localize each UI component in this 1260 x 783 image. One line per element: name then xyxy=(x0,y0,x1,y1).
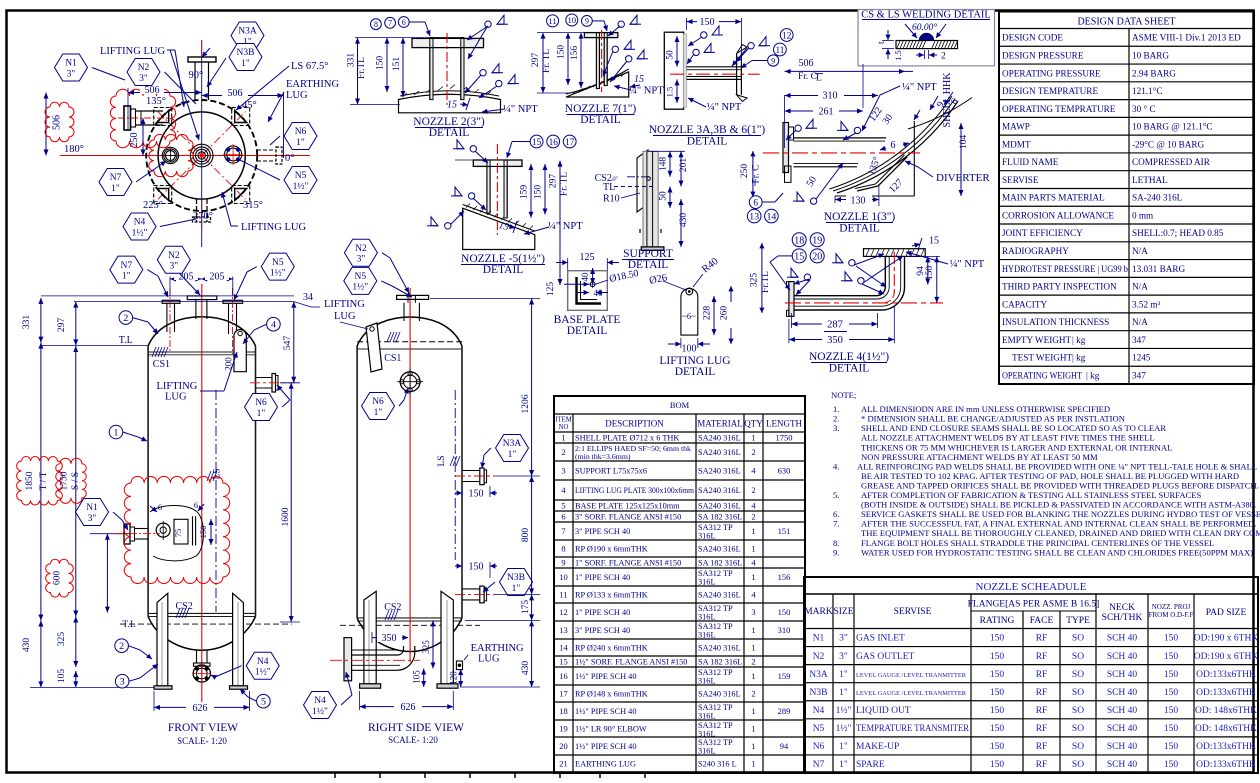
side view seam CS1 xyxy=(384,332,401,364)
svg-text:5.: 5. xyxy=(833,490,839,500)
svg-text:FROM O.D-F.F: FROM O.D-F.F xyxy=(1149,611,1194,619)
nozzle N5 (top view) xyxy=(223,144,243,165)
side view seam CS2 xyxy=(384,602,401,620)
top view dimension 250 xyxy=(129,118,146,156)
front view hexagon N1 xyxy=(76,499,129,531)
svg-text:SUPPORT L75x75x6: SUPPORT L75x75x6 xyxy=(575,467,647,476)
nozzle N1 flange assembly at 135 deg (top view) with revision cloud xyxy=(110,89,175,148)
svg-text:RF: RF xyxy=(1036,652,1048,662)
svg-text:21: 21 xyxy=(559,759,568,769)
svg-text:6: 6 xyxy=(194,500,198,510)
front view dim 600 clouded xyxy=(46,534,130,613)
svg-text:TYPE: TYPE xyxy=(1066,616,1090,626)
nozzle 3A 3B 6 detail dim 150 xyxy=(687,16,742,64)
svg-text:1½": 1½" xyxy=(255,667,271,678)
front view nozzle N1 assembly clouded xyxy=(115,476,230,583)
front view balloons xyxy=(109,425,147,441)
nozzle 5 detail 15 dim and NPT label xyxy=(497,220,583,235)
svg-text:-29°C @ 10 BARG: -29°C @ 10 BARG xyxy=(1132,139,1204,149)
svg-text:3": 3" xyxy=(88,514,97,524)
svg-text:EARTHING LUG: EARTHING LUG xyxy=(575,760,636,769)
svg-text:9: 9 xyxy=(561,558,565,568)
svg-text:OPERATING TEMPRATURE: OPERATING TEMPRATURE xyxy=(1002,104,1116,114)
svg-text:2: 2 xyxy=(751,512,755,522)
svg-text:1206: 1206 xyxy=(521,394,531,413)
lifting lug detail labels Ø26 R40 xyxy=(648,256,720,290)
svg-text:T.L: T.L xyxy=(122,620,135,630)
front view lifting lug xyxy=(224,330,247,372)
side view nozzle N3A xyxy=(455,468,495,485)
nozzle 7 detail drawing xyxy=(566,30,629,97)
top view label LS 67.5 xyxy=(236,61,328,110)
svg-text:15: 15 xyxy=(532,138,542,148)
svg-text:PAD SIZE: PAD SIZE xyxy=(1206,608,1247,618)
svg-text:NOTE;: NOTE; xyxy=(831,390,856,400)
svg-text:159: 159 xyxy=(520,185,530,200)
svg-text:15: 15 xyxy=(794,252,804,263)
front view left dims 331 297 xyxy=(22,298,148,346)
svg-text:SCH 40: SCH 40 xyxy=(1107,706,1138,716)
svg-text:NOZZLE 4(1½"): NOZZLE 4(1½") xyxy=(809,351,889,363)
svg-text:19: 19 xyxy=(812,235,822,246)
svg-text:SA240 316L: SA240 316L xyxy=(698,690,741,699)
svg-text:1": 1" xyxy=(512,584,521,594)
svg-text:SCH 40: SCH 40 xyxy=(1107,760,1138,770)
svg-text:DETAIL: DETAIL xyxy=(429,127,470,139)
svg-text:SCH 40: SCH 40 xyxy=(1107,724,1138,734)
svg-text:1: 1 xyxy=(751,724,755,734)
side view caption xyxy=(368,722,464,745)
svg-text:506: 506 xyxy=(145,85,160,96)
svg-text:150: 150 xyxy=(990,760,1005,770)
svg-text:3: 3 xyxy=(751,607,755,617)
front view hexagon flags N7 N2 N5 xyxy=(110,256,168,297)
svg-text:5: 5 xyxy=(261,697,266,708)
hexagon flag N3A 1 inch (top view) xyxy=(231,22,264,49)
svg-text:1½": 1½" xyxy=(836,705,852,716)
nozzle 7 detail 15 dim and NPT label xyxy=(614,74,664,97)
svg-text:1": 1" xyxy=(296,138,305,148)
svg-text:175: 175 xyxy=(521,600,531,615)
svg-text:SA240 316L: SA240 316L xyxy=(698,502,741,511)
svg-text:SHELL:0.7; HEAD 0.85: SHELL:0.7; HEAD 0.85 xyxy=(1132,228,1224,238)
svg-text:GREASE AND TAPPED ORIFICES SHA: GREASE AND TAPPED ORIFICES SHALL BE PROV… xyxy=(861,480,1259,490)
nozzle 2 detail 15 dim and NPT label xyxy=(447,98,538,115)
front view dim 1600 xyxy=(280,383,300,622)
nozzle 3A 3B 6 detail dims 50 and 1.5 xyxy=(665,36,680,103)
svg-text:3.52 m³: 3.52 m³ xyxy=(1132,299,1161,309)
svg-text:N3B: N3B xyxy=(810,688,828,698)
front view caption xyxy=(168,722,238,746)
svg-text:1½": 1½" xyxy=(836,723,852,734)
support detail seam labels CS2 TL R10 xyxy=(595,173,652,205)
front view dim 1750 S/S clouded xyxy=(56,346,87,617)
side view dim 626 xyxy=(360,691,454,713)
nozzle 4 detail caption xyxy=(809,351,889,375)
svg-text:SCALE- 1:20: SCALE- 1:20 xyxy=(388,735,438,745)
nozzle 1 detail caption xyxy=(824,211,896,235)
svg-text:SO: SO xyxy=(1072,688,1084,698)
svg-text:DETAIL: DETAIL xyxy=(580,114,621,126)
nozzle 1 detail labels 122 30 135 104 6 127 50 130 xyxy=(805,105,969,206)
svg-text:261: 261 xyxy=(819,107,834,118)
svg-text:159: 159 xyxy=(778,671,791,681)
svg-text:ITEM: ITEM xyxy=(555,417,572,424)
side view dim 350 xyxy=(372,632,408,644)
svg-text:EMPTY WEIGHT: EMPTY WEIGHT xyxy=(1002,335,1072,345)
svg-text:CAPACITY: CAPACITY xyxy=(1002,299,1047,309)
svg-text:105: 105 xyxy=(57,669,67,684)
nozzle 7 detail balloons 11 10 9 xyxy=(547,14,608,31)
svg-text:SO: SO xyxy=(1072,634,1084,644)
svg-text:N7: N7 xyxy=(120,261,132,271)
svg-text:150: 150 xyxy=(557,45,567,60)
svg-text:626: 626 xyxy=(401,702,416,713)
svg-text:Fr. TL: Fr. TL xyxy=(560,172,570,196)
svg-text:430: 430 xyxy=(22,638,32,653)
side view hexagon N6 xyxy=(362,388,409,420)
svg-text:1½": 1½" xyxy=(352,282,368,293)
nozzle 3A 3B 6 detail drawing xyxy=(664,32,759,109)
svg-text:SCH 40: SCH 40 xyxy=(1107,742,1138,752)
svg-text:1½": 1½" xyxy=(132,227,148,238)
svg-text:1": 1" xyxy=(122,271,131,281)
svg-text:1" PIPE SCH 40: 1" PIPE SCH 40 xyxy=(575,608,630,617)
svg-text:RF: RF xyxy=(1036,634,1048,644)
svg-text:SO: SO xyxy=(1072,724,1084,734)
svg-text:SERVISE: SERVISE xyxy=(894,607,932,617)
svg-text:150: 150 xyxy=(1164,742,1179,752)
base plate detail hole label xyxy=(596,268,640,285)
svg-text:SPARE: SPARE xyxy=(856,760,885,770)
svg-text:150: 150 xyxy=(1164,670,1179,680)
svg-text:6: 6 xyxy=(753,198,758,208)
svg-text:BASE PLATE 125x125x10mm: BASE PLATE 125x125x10mm xyxy=(575,502,680,511)
svg-text:ALL REINFORCING PAD WELDS SHAL: ALL REINFORCING PAD WELDS SHALL BE PROVI… xyxy=(857,461,1257,471)
svg-text:N6: N6 xyxy=(372,397,384,407)
svg-text:MAKE-UP: MAKE-UP xyxy=(856,742,899,752)
svg-text:6: 6 xyxy=(158,502,162,512)
svg-text:2: 2 xyxy=(751,447,755,457)
svg-text:SA-240 316L: SA-240 316L xyxy=(1132,193,1183,203)
front view dimension 205 205 xyxy=(170,271,233,296)
svg-text:2: 2 xyxy=(941,52,946,62)
svg-text:2: 2 xyxy=(561,447,565,457)
svg-text:1: 1 xyxy=(751,741,755,751)
svg-text:NECK: NECK xyxy=(1109,603,1135,613)
svg-text:2.: 2. xyxy=(833,414,839,424)
svg-text:90°: 90° xyxy=(189,70,204,81)
svg-text:506: 506 xyxy=(52,115,63,130)
svg-text:MAIN PARTS MATERIAL: MAIN PARTS MATERIAL xyxy=(1002,193,1105,203)
nozzle 3A 3B 6 detail caption xyxy=(649,124,766,148)
svg-text:11: 11 xyxy=(548,16,556,26)
top view leader 90 deg arrow xyxy=(202,48,210,57)
svg-text:SA 182 316L: SA 182 316L xyxy=(698,658,742,667)
svg-text:BOM: BOM xyxy=(670,400,690,410)
svg-text:LEVEL GAUGE /LEVEL TRANMITTER: LEVEL GAUGE /LEVEL TRANMITTER xyxy=(856,690,967,697)
svg-text:1: 1 xyxy=(751,526,755,536)
svg-text:N2: N2 xyxy=(138,63,150,73)
nozzle N6 stub at 0 deg (top view) xyxy=(257,147,282,164)
BOM table xyxy=(554,396,805,773)
svg-text:S / S: S / S xyxy=(71,472,81,490)
svg-text:CS1: CS1 xyxy=(153,359,170,370)
hexagon flag N3B 1 inch (top view) xyxy=(207,44,262,88)
svg-text:8.: 8. xyxy=(833,538,839,548)
nozzle 7 detail dims 297 150 156 xyxy=(531,33,584,93)
nozzle 3A 3B 6 detail NPT label xyxy=(688,98,742,113)
svg-text:OPERATING PRESSURE: OPERATING PRESSURE xyxy=(1002,68,1101,78)
svg-text:T.L: T.L xyxy=(119,335,133,346)
svg-text:RADIOGRAPHY: RADIOGRAPHY xyxy=(1002,246,1069,256)
svg-text:OD:190 x 6THK: OD:190 x 6THK xyxy=(1194,652,1259,662)
svg-text:315°: 315° xyxy=(243,200,263,211)
weld seam symbol with 60 degree groove xyxy=(896,22,958,49)
top view dimension 506 right xyxy=(202,87,284,99)
svg-text:1½": 1½" xyxy=(312,706,328,717)
svg-text:15: 15 xyxy=(447,100,457,111)
svg-text:N3A: N3A xyxy=(503,439,522,449)
svg-text:1" PIPE SCH 40: 1" PIPE SCH 40 xyxy=(575,573,630,582)
svg-text:TL: TL xyxy=(603,182,615,193)
side view nozzle N6 face circles xyxy=(397,369,423,395)
svg-text:1½": 1½" xyxy=(270,267,286,278)
svg-text:SCH 40: SCH 40 xyxy=(1107,688,1138,698)
svg-text:Fr. C: Fr. C xyxy=(752,164,762,183)
svg-text:DETAIL: DETAIL xyxy=(567,325,608,337)
svg-text:N4: N4 xyxy=(257,657,269,667)
svg-text:1½" SORF. FLANGE ANSI #150: 1½" SORF. FLANGE ANSI #150 xyxy=(575,658,687,667)
nozzle N7 (top view) with revision cloud xyxy=(149,134,193,176)
svg-text:N3B: N3B xyxy=(507,573,525,583)
svg-text:75: 75 xyxy=(173,529,183,538)
svg-text:FLUID NAME: FLUID NAME xyxy=(1002,157,1059,167)
svg-text:430: 430 xyxy=(679,213,689,228)
nozzle 2 detail drawing xyxy=(399,33,501,113)
svg-text:1: 1 xyxy=(751,572,755,582)
svg-text:151: 151 xyxy=(778,526,791,536)
svg-text:R10: R10 xyxy=(603,194,620,205)
svg-text:SCH 40: SCH 40 xyxy=(1107,652,1138,662)
svg-text:THICKENS OR 75 MM WHICHEVER IS: THICKENS OR 75 MM WHICHEVER IS LARGER AN… xyxy=(861,442,1172,452)
nozzle 2 detail weld symbols xyxy=(465,15,519,98)
svg-text:TEST WEIGHT: TEST WEIGHT xyxy=(1012,353,1073,363)
top view: vessel plan xyxy=(60,40,310,247)
notes text block xyxy=(831,390,1260,557)
front view LS seam line xyxy=(207,390,223,612)
svg-text:6: 6 xyxy=(891,140,896,151)
side view LS seam xyxy=(437,390,460,560)
support leg detail drawing xyxy=(637,150,664,250)
svg-text:15: 15 xyxy=(634,74,644,85)
svg-text:FLANGE BOLT HOLES SHALL STRADD: FLANGE BOLT HOLES SHALL STRADDLE THE PRI… xyxy=(861,538,1214,548)
svg-text:CS2: CS2 xyxy=(176,601,193,612)
svg-text:THE EQUIPMENT SHALL BE THOROUG: THE EQUIPMENT SHALL BE THOROUGHLY CLEANE… xyxy=(861,528,1260,538)
svg-text:S240 316 L: S240 316 L xyxy=(698,760,737,769)
support detail dims 148 201 50 430 xyxy=(648,151,689,247)
svg-text:DETAIL: DETAIL xyxy=(839,223,880,235)
svg-text:205: 205 xyxy=(210,272,225,283)
svg-text:LS 67.5°: LS 67.5° xyxy=(291,61,328,72)
svg-text:10 BARG @ 121.1°C: 10 BARG @ 121.1°C xyxy=(1132,122,1213,132)
svg-text:* DIMENSION SHALL BE CHANGE/AD: * DIMENSION SHALL BE CHANGE/ADJUSTED AS … xyxy=(861,414,1126,424)
svg-text:FRONT VIEW: FRONT VIEW xyxy=(168,722,238,734)
svg-text:N/A: N/A xyxy=(1132,282,1148,292)
svg-text:310: 310 xyxy=(823,91,838,102)
svg-text:EARTHING: EARTHING xyxy=(286,79,339,90)
svg-text:SA240 316L: SA240 316L xyxy=(698,545,741,554)
side view hexagon N3A xyxy=(480,435,528,469)
svg-text:316L: 316L xyxy=(698,577,716,586)
svg-text:MAWP: MAWP xyxy=(1002,122,1030,132)
svg-text:1850: 1850 xyxy=(25,471,35,490)
svg-text:SERVICE GASKETS SHALL BE USED: SERVICE GASKETS SHALL BE USED FOR BLANKI… xyxy=(861,509,1260,519)
svg-text:CS1: CS1 xyxy=(384,353,401,364)
svg-text:LUG: LUG xyxy=(286,90,308,101)
svg-text:350: 350 xyxy=(382,633,397,644)
svg-text:6: 6 xyxy=(561,512,565,522)
svg-text:N3A: N3A xyxy=(238,27,257,37)
svg-text:GAS INLET: GAS INLET xyxy=(856,634,905,644)
svg-text:| kg: | kg xyxy=(1086,370,1100,380)
svg-text:LIFTING LUG PLATE 300x100x6mm: LIFTING LUG PLATE 300x100x6mm xyxy=(575,486,694,495)
svg-text:3.: 3. xyxy=(833,423,839,433)
svg-text:150: 150 xyxy=(469,562,484,573)
design data sheet table xyxy=(999,12,1254,385)
svg-text:20: 20 xyxy=(559,741,568,751)
side view hexagon N3B xyxy=(483,569,533,596)
svg-text:AFTER COMPLETION OF FABRICATIO: AFTER COMPLETION OF FABRICATION & TESTIN… xyxy=(861,490,1202,500)
svg-text:331: 331 xyxy=(347,53,357,68)
svg-text:289: 289 xyxy=(778,706,791,716)
svg-text:316L: 316L xyxy=(698,676,716,685)
svg-text:40: 40 xyxy=(580,272,590,282)
svg-text:N6: N6 xyxy=(295,127,307,137)
svg-text:T / T: T / T xyxy=(39,471,49,490)
front view dim 1850 T/T clouded xyxy=(17,343,63,621)
svg-text:120: 120 xyxy=(449,671,459,685)
svg-text:125: 125 xyxy=(580,252,595,263)
svg-text:347: 347 xyxy=(1132,335,1146,345)
top view dimension 506 left xyxy=(128,84,202,130)
svg-text:DESIGN CODE: DESIGN CODE xyxy=(1002,33,1063,43)
svg-text:347: 347 xyxy=(1132,370,1146,380)
front view top nozzle N2 stub xyxy=(187,296,217,319)
svg-text:Fr. TL: Fr. TL xyxy=(542,49,552,73)
svg-text:LETHAL: LETHAL xyxy=(1132,175,1168,185)
svg-text:9.: 9. xyxy=(833,547,839,557)
lifting lug detail dims 228 260 100 xyxy=(668,286,734,355)
svg-text:297: 297 xyxy=(549,174,559,189)
nozzle 4 detail dim 325 FrTL xyxy=(750,243,771,313)
weld detail dims t 1.5 2 xyxy=(877,30,946,62)
svg-text:LUG: LUG xyxy=(165,392,187,403)
svg-text:LIFTING LUG: LIFTING LUG xyxy=(241,222,306,233)
svg-text:LS: LS xyxy=(437,455,447,466)
hexagon flag N6 1 inch (top view) xyxy=(270,123,317,150)
svg-text:150: 150 xyxy=(990,688,1005,698)
svg-text:7.: 7. xyxy=(833,519,839,529)
svg-text:34: 34 xyxy=(303,292,313,303)
svg-text:150: 150 xyxy=(778,607,791,617)
front view support legs xyxy=(157,593,243,686)
svg-text:COMPRESSED AIR: COMPRESSED AIR xyxy=(1132,157,1211,167)
svg-text:2: 2 xyxy=(751,689,755,699)
svg-text:RATING: RATING xyxy=(980,616,1015,626)
svg-text:N2: N2 xyxy=(355,244,367,254)
svg-text:8: 8 xyxy=(374,20,378,29)
svg-text:SA240 316L: SA240 316L xyxy=(698,486,741,495)
svg-text:SO: SO xyxy=(1072,742,1084,752)
svg-text:12: 12 xyxy=(782,31,792,41)
svg-text:150: 150 xyxy=(1164,760,1179,770)
svg-text:150: 150 xyxy=(990,742,1005,752)
svg-text:DETAIL: DETAIL xyxy=(829,363,870,375)
svg-text:DESIGN PRESSURE: DESIGN PRESSURE xyxy=(1002,50,1084,60)
svg-text:DESCRIPTION: DESCRIPTION xyxy=(605,419,664,429)
nozzle 7 detail caption xyxy=(565,103,637,126)
svg-text:16: 16 xyxy=(549,138,559,148)
svg-text:SA240 316L: SA240 316L xyxy=(698,591,741,600)
svg-text:430: 430 xyxy=(521,661,531,676)
svg-text:| kg: | kg xyxy=(1072,335,1086,345)
svg-text:LIFTING: LIFTING xyxy=(157,381,198,392)
svg-text:12: 12 xyxy=(559,607,568,617)
svg-text:250: 250 xyxy=(740,164,750,179)
svg-text:NOZZLE 3A,3B & 6(1"): NOZZLE 3A,3B & 6(1") xyxy=(649,124,766,136)
svg-text:THIRD PARTY INSPECTION: THIRD PARTY INSPECTION xyxy=(1002,282,1117,292)
hexagon flag N1 3 inch (top view) xyxy=(55,54,126,81)
svg-text:¼" NPT: ¼" NPT xyxy=(902,82,937,93)
svg-text:14: 14 xyxy=(559,643,568,653)
front view top reference lines and 34 dim xyxy=(41,292,320,307)
svg-text:2: 2 xyxy=(123,313,128,324)
svg-text:NOZZLE 1(3"): NOZZLE 1(3") xyxy=(824,211,896,223)
svg-text:14: 14 xyxy=(766,212,776,223)
svg-text:1.5: 1.5 xyxy=(665,87,675,98)
svg-text:JOINT EFFICIENCY: JOINT EFFICIENCY xyxy=(1002,228,1083,238)
svg-text:94: 94 xyxy=(780,741,789,751)
side view LIFTING LUG label top xyxy=(324,299,368,329)
svg-text:156: 156 xyxy=(570,46,580,61)
svg-text:250: 250 xyxy=(129,133,140,148)
svg-text:DIVERTER: DIVERTER xyxy=(936,172,990,184)
svg-text:30 ° C: 30 ° C xyxy=(1132,104,1156,114)
svg-text:1245: 1245 xyxy=(1132,353,1151,363)
svg-text:1": 1" xyxy=(839,688,848,698)
svg-text:150: 150 xyxy=(469,489,484,500)
nozzle 1 detail shell thk labels xyxy=(914,72,961,128)
side view hexagon N4 bottom xyxy=(304,672,353,719)
front view top nozzle N5 stub xyxy=(223,288,243,354)
svg-text:11: 11 xyxy=(559,590,567,600)
nozzle 1 detail weld symbols xyxy=(786,119,861,204)
svg-text:N7: N7 xyxy=(110,173,122,183)
svg-text:325: 325 xyxy=(421,640,431,654)
nozzle 1 detail dims 506 310 261 xyxy=(785,57,913,148)
svg-text:SA 182 316L: SA 182 316L xyxy=(698,559,742,568)
svg-text:SO: SO xyxy=(1072,706,1084,716)
svg-text:150: 150 xyxy=(1164,724,1179,734)
svg-text:¼" NPT: ¼" NPT xyxy=(629,86,664,97)
svg-text:150: 150 xyxy=(990,724,1005,734)
svg-text:9: 9 xyxy=(585,17,589,26)
svg-text:SO: SO xyxy=(1072,670,1084,680)
nozzle 5 detail dims 159 150 297 xyxy=(455,160,570,285)
svg-text:150: 150 xyxy=(1164,652,1179,662)
svg-text:18: 18 xyxy=(559,706,568,716)
